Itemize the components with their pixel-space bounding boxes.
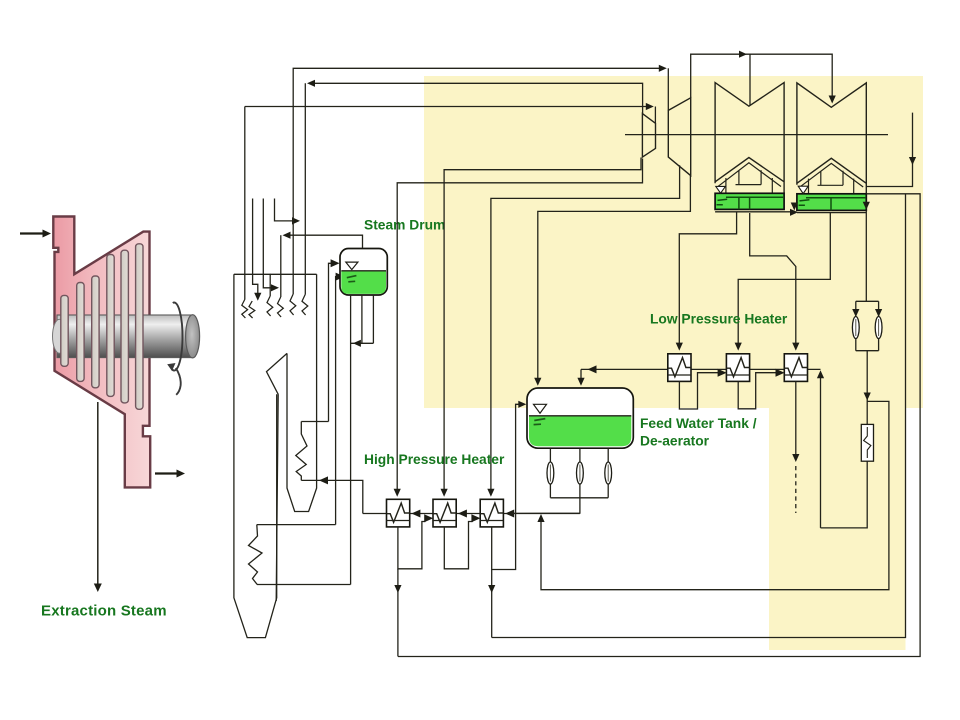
steam inlet arrow into turbine (20, 230, 51, 238)
superheater hanger line c (275, 199, 301, 225)
steam outlet arrow from turbine (155, 470, 185, 478)
extraction line to LPH1 (676, 212, 737, 351)
drum steam outlet line (283, 232, 363, 248)
crossover pipe to LP turbines (691, 51, 836, 106)
svg-text:Low Pressure Heater: Low Pressure Heater (650, 312, 788, 327)
turbine casing (pink clip-art) (53, 217, 150, 488)
boiler top edge (234, 273, 317, 275)
hot reheat line to IP turbine (293, 65, 668, 294)
LPH1 drain loop (679, 369, 726, 409)
svg-text:Steam Drum: Steam Drum (364, 218, 445, 233)
superheater coil 2 (267, 296, 283, 317)
condensate pump 1 (852, 317, 859, 339)
water wall top header (257, 524, 336, 526)
main steam line to HP turbine (245, 103, 656, 123)
condenser 1 internals (717, 197, 785, 209)
condensate pump 2 (875, 317, 882, 339)
superheater coil 1 (242, 299, 255, 318)
LP feedwater drop to tank (577, 369, 584, 385)
condenser 1 bottom outlet line (715, 209, 798, 216)
condensate fall arrows (791, 203, 798, 211)
condensate pump manifold (856, 301, 879, 350)
superheater hanger line a (253, 199, 258, 295)
condenser 1 hotwell (green) (715, 193, 784, 209)
HPH3 drain loop to deaerator (492, 401, 527, 570)
turbine shaft (57, 315, 193, 358)
LP turbine 1 (715, 83, 784, 194)
feed water tank water (green) (529, 416, 631, 446)
superheater supply drop 1 (244, 107, 246, 300)
feed pump discharge to HPH3 (511, 498, 580, 514)
rotation arrow around shaft (167, 303, 182, 395)
gland steam condenser (861, 424, 873, 461)
svg-text:High Pressure Heater: High Pressure Heater (364, 452, 505, 467)
downcomer drop line (350, 295, 352, 585)
LPH2 drain loop (738, 369, 784, 409)
HPH3 drain to bottom line (488, 570, 495, 638)
condenser 1 level symbol (716, 186, 726, 193)
water wall with zigzag (249, 525, 263, 585)
extraction line to LPH2 (735, 212, 831, 351)
turbine shaft line (625, 134, 888, 136)
extraction steam line (94, 402, 102, 592)
drum downcomer stubs (351, 295, 374, 347)
circulating water outlet loop (398, 194, 920, 657)
LP heater 3 (784, 354, 807, 382)
condenser 2 internals (799, 198, 866, 211)
economizer coil zigzag (296, 422, 307, 481)
feed water tank water surface line (529, 415, 631, 417)
condenser 2 bottom line (797, 212, 866, 214)
riser to steam drum (329, 259, 340, 421)
LP1 exhaust hood inner (718, 163, 781, 194)
cold reheat line HP to boiler (305, 80, 642, 295)
feed pump 1 (547, 462, 554, 484)
condenser 2 level symbol (798, 186, 808, 193)
extraction line to HPH2 (441, 158, 642, 497)
extraction line to HPH1 (394, 159, 643, 497)
condensate line to gland condenser (864, 351, 871, 425)
svg-text:Feed Water Tank /: Feed Water Tank / (640, 416, 757, 431)
condenser 2 hotwell (green) (797, 194, 866, 211)
steam drum level symbol (346, 262, 358, 270)
feed pump 2 (577, 462, 584, 484)
svg-text:Extraction Steam: Extraction Steam (41, 603, 167, 620)
boiler furnace flame shape (267, 353, 288, 601)
steam drum water (green) (341, 271, 386, 294)
feed pump suction stubs (550, 448, 608, 498)
circulating water inlet (866, 113, 916, 187)
boiler bottom header (257, 584, 351, 586)
feed water tank level symbol (534, 404, 547, 413)
HP heater 3 (480, 499, 503, 527)
economizer riser to drum (336, 273, 345, 525)
LP turbine 2 (797, 83, 866, 194)
extraction line to LPH3 (750, 213, 800, 351)
extraction line to deaerator (534, 176, 690, 386)
HPH1 drain loop (398, 514, 433, 569)
yellow highlight block upper (424, 76, 923, 408)
turbine shaft end cap (186, 315, 200, 358)
reheater coil (290, 294, 308, 315)
feed pump 3 (605, 462, 612, 484)
turbine shaft left dome (53, 319, 67, 353)
superheater hanger arrow a (254, 293, 261, 301)
cooling water return branch (492, 194, 906, 638)
superheater drop under boiler top (269, 274, 271, 296)
boiler left wall and ash funnel (234, 274, 277, 637)
condensate pump inlet arrows (852, 309, 859, 317)
steam drum shell (340, 249, 387, 296)
IP turbine (668, 98, 690, 176)
HP heater 2 (433, 499, 456, 527)
superheater drop from drum (280, 235, 282, 297)
HPH2 drain loop (444, 514, 480, 569)
superheater hanger line b (263, 199, 279, 292)
feedwater line to economizer (301, 476, 363, 513)
feed water tank water marks (534, 419, 546, 425)
LP heater 2 (726, 354, 749, 382)
HPH1 drain to bottom line (394, 569, 401, 657)
feed water tank shell (527, 388, 633, 448)
svg-text:De-aerator: De-aerator (640, 434, 710, 449)
condensate drop from condenser (865, 211, 867, 302)
turbine blades (61, 244, 143, 409)
HP feedwater line (363, 510, 580, 518)
steam drum water marks (347, 276, 357, 282)
LP feedwater line (581, 365, 821, 373)
LP2 exhaust hood inner (800, 163, 863, 193)
yellow highlight block lower right (769, 408, 906, 650)
boiler right wall and backpass hopper (287, 274, 317, 511)
LPH3 drain line with dashed tail (792, 381, 799, 513)
gland condenser bypass loop (537, 401, 889, 589)
LP heater 1 (668, 354, 691, 382)
HP heater 1 (387, 499, 410, 527)
steam drum water surface line (341, 270, 386, 272)
economizer top header line (301, 421, 328, 423)
HP turbine (642, 114, 655, 158)
extraction line to HPH3 (487, 165, 679, 497)
condensate line to LP heaters (817, 370, 867, 528)
